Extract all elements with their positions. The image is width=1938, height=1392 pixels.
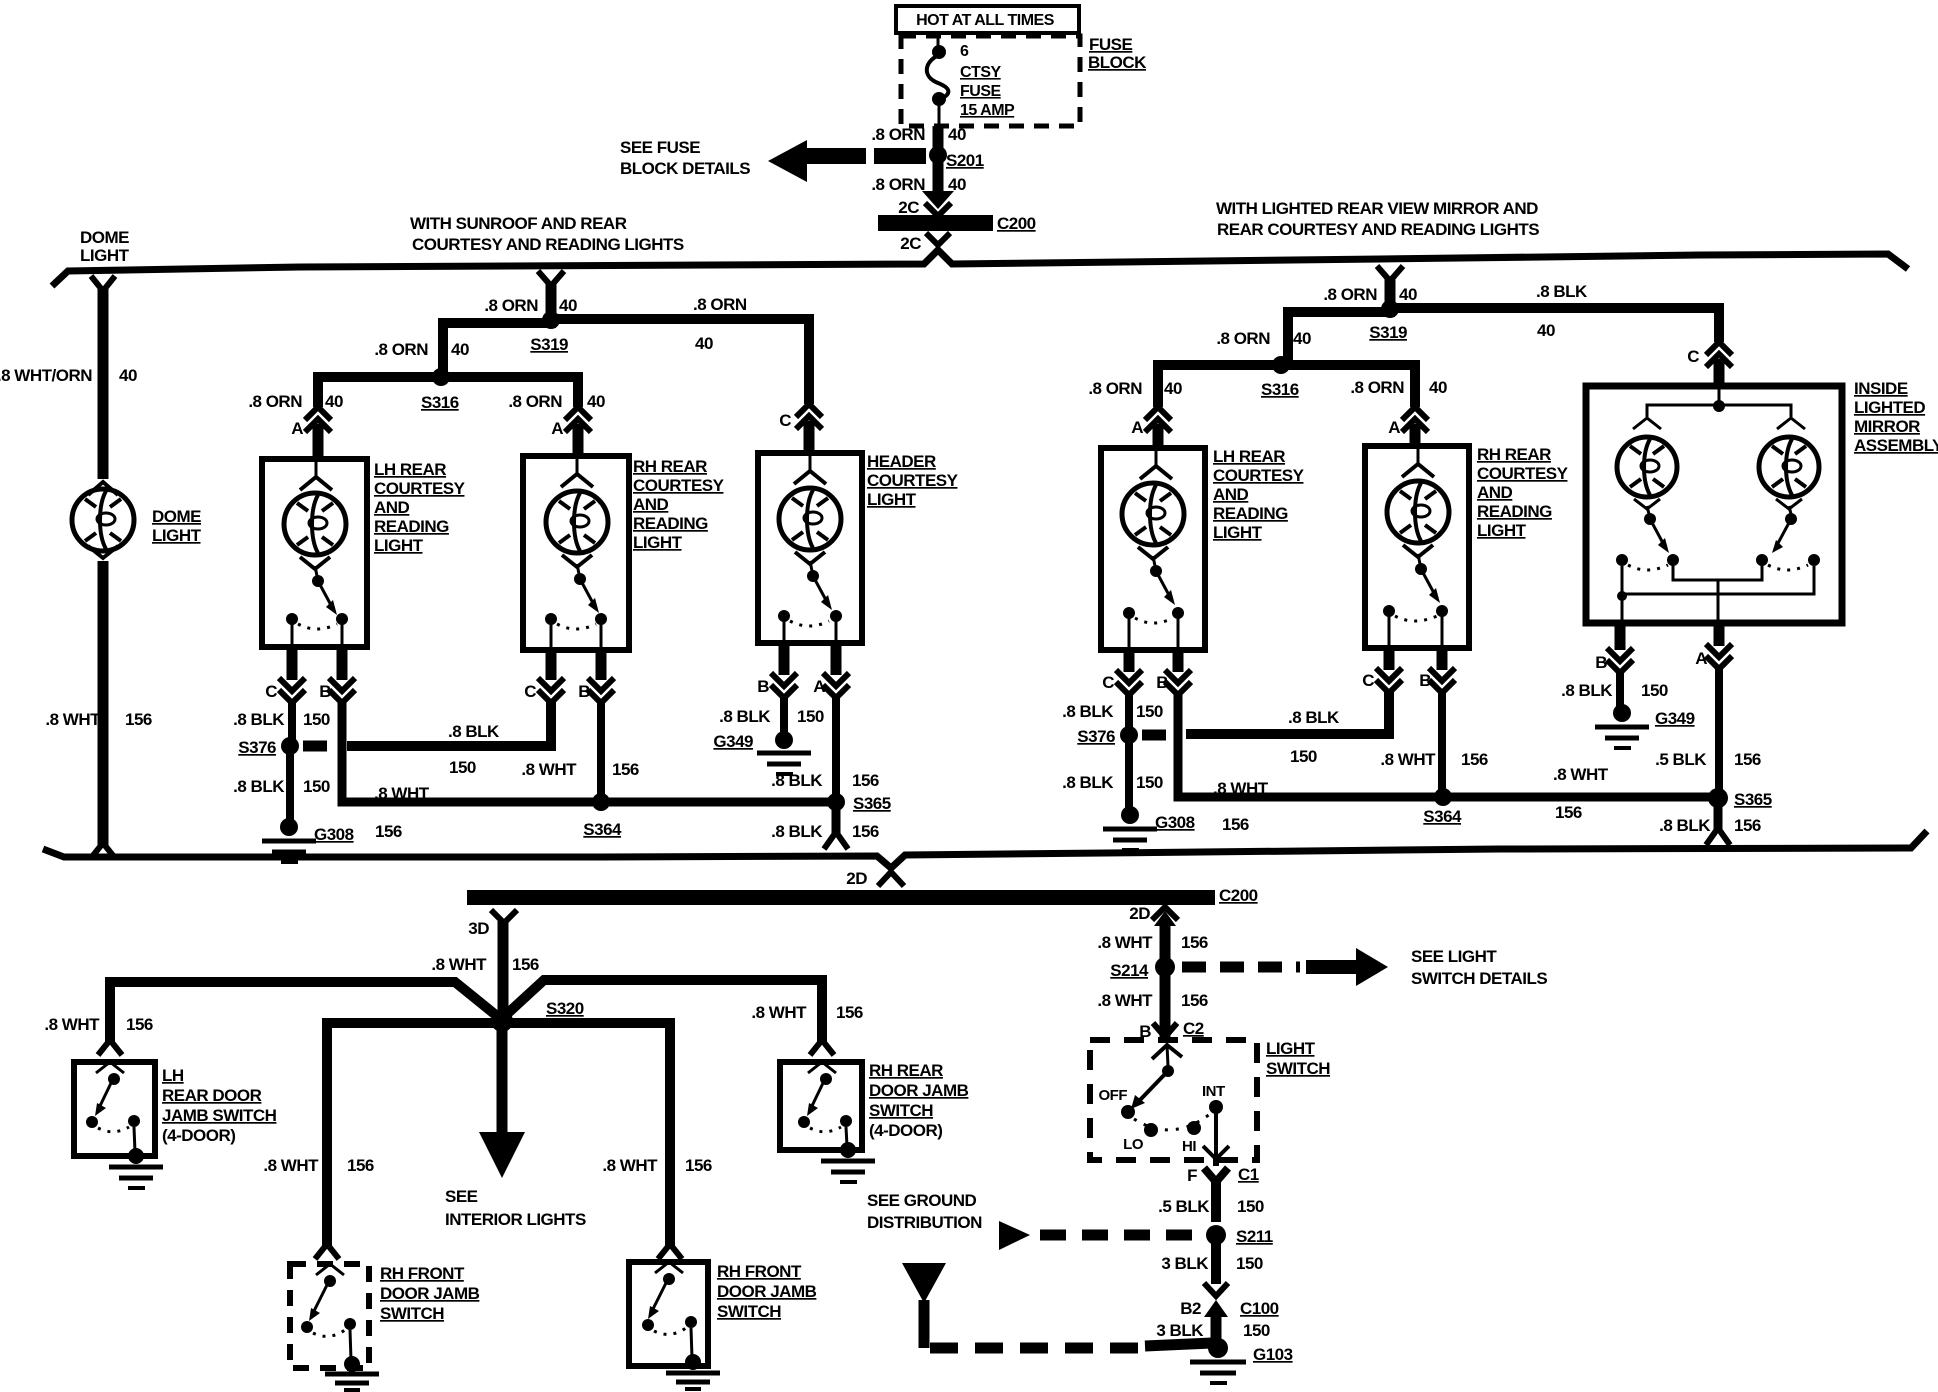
- wire: S365 to lower bus .8 BLK 156: [824, 808, 848, 849]
- lamp: DOME LIGHT bulb: [72, 482, 134, 558]
- svg-text:LIGHT: LIGHT: [1477, 521, 1527, 540]
- wire: .8 BLK 150 run S376 to RH lamp C: [347, 700, 551, 746]
- label: .8 BLK 40 (mirror feed): [1536, 282, 1588, 340]
- svg-text:40: 40: [325, 392, 343, 411]
- svg-text:.5 BLK: .5 BLK: [1158, 1197, 1210, 1216]
- svg-text:.5 BLK: .5 BLK: [1655, 750, 1707, 769]
- svg-text:.8 WHT: .8 WHT: [1097, 933, 1153, 952]
- connector arrow B out of LH rear lamp (right): [1156, 650, 1191, 695]
- svg-text:LH: LH: [162, 1066, 184, 1085]
- svg-text:156: 156: [1734, 750, 1761, 769]
- svg-text:150: 150: [1236, 1254, 1263, 1273]
- label: .8 WHT 156 (C200 to S214): [1097, 933, 1208, 952]
- wire: dashed run to G103: [924, 1300, 1212, 1348]
- svg-text:COURTESY: COURTESY: [633, 476, 725, 495]
- svg-text:.8 WHT: .8 WHT: [521, 760, 577, 779]
- svg-text:DOOR JAMB: DOOR JAMB: [380, 1284, 480, 1303]
- svg-text:.8 WHT: .8 WHT: [374, 784, 430, 803]
- wire: mirror B to G349 (right): [1616, 670, 1624, 708]
- label: RH FRONT DOOR JAMB SWITCH (left): [380, 1264, 480, 1323]
- label: OFF: [1099, 1087, 1128, 1104]
- svg-text:156: 156: [852, 771, 879, 790]
- svg-text:COURTESY: COURTESY: [1477, 464, 1569, 483]
- svg-text:A: A: [551, 419, 563, 438]
- wire: mirror A to S365 (right) .5 BLK 156: [1715, 668, 1723, 793]
- label: .8 BLK 156 (header A lead): [771, 771, 879, 790]
- svg-text:150: 150: [1136, 773, 1163, 792]
- svg-text:DISTRIBUTION: DISTRIBUTION: [867, 1213, 982, 1232]
- label: DOME LIGHT (top left): [80, 228, 130, 265]
- svg-text:.8 ORN: .8 ORN: [1350, 378, 1404, 397]
- connector fork: S319 left drop from upper bus: [538, 271, 564, 286]
- svg-text:COURTESY AND READING LIGHTS: COURTESY AND READING LIGHTS: [412, 235, 684, 254]
- splice S320: [491, 999, 584, 1032]
- splice S364 (left): [583, 793, 622, 839]
- svg-text:S211: S211: [1236, 1227, 1273, 1246]
- lamp: mirror right bulb: [1759, 437, 1819, 497]
- connector arrow A out of mirror: [1695, 623, 1732, 669]
- svg-text:JAMB SWITCH: JAMB SWITCH: [162, 1106, 277, 1125]
- svg-text:.8 BLK: .8 BLK: [1062, 702, 1114, 721]
- label: .8 WHT 156 (right B run): [1213, 779, 1269, 834]
- wire: RH lamp B to S364: [597, 700, 605, 800]
- svg-text:.8 ORN: .8 ORN: [693, 295, 747, 314]
- svg-text:40: 40: [587, 392, 605, 411]
- svg-text:.8 BLK: .8 BLK: [448, 722, 500, 741]
- label: .8 WHT 156 (mid RH front run): [602, 1156, 712, 1175]
- label: .8 BLK (S376 run): [448, 722, 500, 777]
- svg-text:RH FRONT: RH FRONT: [717, 1262, 802, 1281]
- wire: mirror outer contacts to B lead: [1617, 566, 1814, 620]
- wire: S214 to light switch B .8 WHT 156: [1160, 975, 1171, 1038]
- connector fork: dome light wire at upper bus: [91, 276, 115, 291]
- svg-text:.8 BLK: .8 BLK: [1659, 816, 1711, 835]
- svg-text:C2: C2: [1183, 1019, 1204, 1038]
- label: .8 ORN (S319 to header): [693, 295, 747, 353]
- svg-text:.8 WHT: .8 WHT: [1380, 750, 1436, 769]
- svg-text:SWITCH: SWITCH: [1266, 1059, 1330, 1078]
- svg-text:MIRROR: MIRROR: [1854, 417, 1920, 436]
- svg-text:G308: G308: [314, 825, 354, 844]
- label: 3 BLK 150: [1161, 1254, 1263, 1273]
- label: 3 BLK 150 (below C100): [1156, 1321, 1270, 1340]
- switch: mirror right bulb switch: [1756, 499, 1820, 570]
- svg-text:40: 40: [559, 296, 577, 315]
- svg-text:40: 40: [1399, 285, 1417, 304]
- svg-text:.8 BLK: .8 BLK: [771, 771, 823, 790]
- svg-text:LIGHT: LIGHT: [80, 246, 130, 265]
- svg-text:156: 156: [1734, 816, 1761, 835]
- node: HOT AT ALL TIMES box: [896, 6, 1079, 33]
- svg-text:G103: G103: [1253, 1345, 1293, 1364]
- wire: S376 right dash stub: [1142, 730, 1166, 741]
- svg-text:150: 150: [797, 707, 824, 726]
- connector 3D below C200: [468, 910, 517, 938]
- svg-text:S320: S320: [546, 999, 584, 1018]
- svg-text:3D: 3D: [468, 919, 489, 938]
- svg-text:B2: B2: [1180, 1299, 1201, 1318]
- ground G349 (left): [713, 731, 811, 774]
- svg-text:.8 BLK: .8 BLK: [771, 822, 823, 841]
- svg-text:156: 156: [836, 1003, 863, 1022]
- svg-text:.8 WHT: .8 WHT: [263, 1156, 319, 1175]
- svg-text:S364: S364: [1423, 807, 1462, 826]
- svg-text:HEADER: HEADER: [867, 452, 936, 471]
- svg-text:156: 156: [512, 955, 539, 974]
- arrow: ground distribution triangle: [902, 1263, 946, 1303]
- svg-text:40: 40: [1429, 378, 1447, 397]
- svg-text:(4-DOOR): (4-DOOR): [162, 1126, 235, 1145]
- lamp box: LH REAR COURTESY AND READING LIGHT (right section): [1101, 448, 1205, 650]
- label: INSIDE LIGHTED MIRROR ASSEMBLY: [1854, 379, 1938, 455]
- wire: S319 left branch to S316: [443, 323, 556, 372]
- svg-text:.8 WHT: .8 WHT: [431, 955, 487, 974]
- label: .8 WHT 156 (C200 to S320): [431, 955, 539, 974]
- svg-text:.8 ORN: .8 ORN: [871, 175, 925, 194]
- lamp box: HEADER COURTESY LIGHT: [758, 453, 862, 643]
- svg-text:.8 WHT/ORN: .8 WHT/ORN: [0, 366, 92, 385]
- label: SEE FUSE BLOCK DETAILS: [620, 138, 750, 178]
- svg-text:RH REAR: RH REAR: [1477, 445, 1551, 464]
- wire: S319 to mirror .8 BLK 40: [1395, 308, 1719, 342]
- wire: C200 3D to S320 .8 WHT 156: [498, 921, 509, 1018]
- svg-text:40: 40: [695, 334, 713, 353]
- svg-text:S364: S364: [583, 820, 622, 839]
- svg-text:40: 40: [1293, 329, 1311, 348]
- svg-text:.8 BLK: .8 BLK: [1561, 681, 1613, 700]
- connector B2 / C100: [1180, 1283, 1278, 1342]
- label: fuse 6 CTSY FUSE 15 AMP: [960, 43, 1015, 119]
- label: FUSE BLOCK: [1088, 35, 1147, 72]
- lamp box: RH REAR COURTESY AND READING LIGHT (left section): [523, 456, 629, 650]
- connector fork into RH rear door jamb switch: [810, 1040, 834, 1055]
- svg-text:156: 156: [125, 710, 152, 729]
- svg-text:.8 ORN: .8 ORN: [1216, 329, 1270, 348]
- svg-text:S201: S201: [946, 151, 984, 170]
- svg-text:INT: INT: [1202, 1083, 1225, 1100]
- svg-text:.8 ORN: .8 ORN: [508, 392, 562, 411]
- svg-text:INTERIOR LIGHTS: INTERIOR LIGHTS: [445, 1210, 586, 1229]
- connector arrow C out of LH rear lamp (right): [1102, 650, 1142, 695]
- svg-text:150: 150: [1237, 1197, 1264, 1216]
- label: .8 ORN 40 (S319-S316 branch): [374, 340, 469, 359]
- connector fork: S319 right drop from upper bus: [1377, 266, 1403, 281]
- splice S376 (right): [1077, 726, 1138, 746]
- svg-text:.8 BLK: .8 BLK: [1536, 282, 1588, 301]
- svg-text:.8 WHT: .8 WHT: [602, 1156, 658, 1175]
- label: SEE LIGHT SWITCH DETAILS: [1411, 947, 1547, 988]
- wire: stub left of S201: [874, 148, 926, 164]
- svg-text:S316: S316: [1261, 380, 1299, 399]
- splice S316 (left): [421, 368, 459, 412]
- label: .8 ORN 40 (right RH lamp feed): [1350, 378, 1447, 397]
- label: LO: [1123, 1136, 1144, 1153]
- label: .8 WHT 156 (dome ground side): [45, 710, 152, 729]
- ground: LH rear door jamb switch: [109, 1167, 163, 1188]
- label: LIGHT SWITCH: [1266, 1039, 1330, 1078]
- svg-text:C200: C200: [997, 214, 1036, 233]
- svg-text:150: 150: [303, 777, 330, 796]
- label: RH REAR COURTESY AND READING LIGHT (left section): [633, 457, 725, 552]
- wire: right LH lamp C to S376: [1125, 692, 1133, 729]
- svg-text:3 BLK: 3 BLK: [1161, 1254, 1209, 1273]
- connector arrow B out of mirror: [1595, 623, 1633, 673]
- svg-text:LIGHT: LIGHT: [633, 533, 683, 552]
- wire: bus to S319 (left): [546, 284, 557, 319]
- svg-text:156: 156: [1222, 815, 1249, 834]
- box: INSIDE LIGHTED MIRROR ASSEMBLY: [1586, 386, 1842, 623]
- svg-text:REAR DOOR: REAR DOOR: [162, 1086, 262, 1105]
- connector fork into RH front door jamb switch (dashed): [315, 1244, 339, 1259]
- wire: S320 to LH rear door jamb switch: [110, 982, 497, 1042]
- splice S211: [1206, 1225, 1273, 1246]
- splice S376 (left): [238, 737, 299, 757]
- wire: C1 to S211 .5 BLK 150: [1211, 1180, 1221, 1222]
- svg-text:LO: LO: [1123, 1136, 1144, 1153]
- connector C200 (bottom bar): [467, 886, 1258, 905]
- svg-text:.8 ORN: .8 ORN: [1088, 379, 1142, 398]
- svg-text:156: 156: [1555, 803, 1582, 822]
- svg-text:A: A: [1388, 418, 1400, 437]
- light switch dashed box: [1090, 1040, 1257, 1160]
- svg-text:156: 156: [1461, 750, 1488, 769]
- svg-text:C200: C200: [1219, 886, 1258, 905]
- svg-text:AND: AND: [633, 495, 669, 514]
- switch box: RH REAR DOOR JAMB SWITCH (4-DOOR): [780, 1062, 862, 1158]
- svg-text:S365: S365: [853, 794, 891, 813]
- svg-text:SEE: SEE: [445, 1187, 478, 1206]
- svg-text:A: A: [1131, 418, 1143, 437]
- svg-text:150: 150: [449, 758, 476, 777]
- svg-text:S316: S316: [421, 393, 459, 412]
- svg-text:150: 150: [1136, 702, 1163, 721]
- svg-text:.8 WHT: .8 WHT: [751, 1003, 807, 1022]
- svg-text:INSIDE: INSIDE: [1854, 379, 1908, 398]
- wire: S319 right branch to header lamp: [556, 319, 809, 404]
- wire: .8 BLK 150 run S376 to RH lamp C (right section): [1186, 692, 1389, 734]
- wire: S376 to G308 (.8 BLK 150): [286, 753, 294, 822]
- svg-text:S319: S319: [1369, 323, 1407, 342]
- svg-text:15 AMP: 15 AMP: [960, 102, 1015, 119]
- svg-text:C: C: [1102, 673, 1114, 692]
- arrow: SEE GROUND DISTRIBUTION (to S211): [999, 1221, 1205, 1250]
- wire: right RH lamp B to S364: [1438, 690, 1446, 797]
- label: .8 WHT 156 (right RH lamp B lead): [1380, 750, 1488, 769]
- svg-text:LIGHT: LIGHT: [867, 490, 917, 509]
- wire: S364 to S365 .8 WHT 156 (right): [1443, 793, 1718, 802]
- wire: LH lamp C to S376: [288, 700, 296, 740]
- label: .8 ORN 40 (below S201): [871, 175, 966, 194]
- ground G308 (right): [1103, 806, 1195, 850]
- wire: header B to G349: [780, 695, 788, 734]
- wire: dome light to lower bus .8 WHT 156: [98, 561, 109, 845]
- svg-text:ASSEMBLY: ASSEMBLY: [1854, 436, 1938, 455]
- svg-text:40: 40: [451, 340, 469, 359]
- svg-text:F: F: [1187, 1166, 1197, 1185]
- svg-text:156: 156: [1181, 991, 1208, 1010]
- svg-text:C1: C1: [1238, 1165, 1259, 1184]
- svg-text:.8 BLK: .8 BLK: [233, 710, 285, 729]
- wire: S316 horizontal (right section): [1158, 365, 1415, 407]
- svg-text:156: 156: [126, 1015, 153, 1034]
- svg-text:WITH LIGHTED REAR VIEW MIRROR: WITH LIGHTED REAR VIEW MIRROR AND: [1216, 199, 1538, 218]
- wire: fuse to S201 (.8 ORN 40): [933, 126, 944, 193]
- wire: S320 to RH front door jamb switch (dashed box): [327, 1023, 498, 1246]
- svg-text:READING: READING: [374, 517, 449, 536]
- label: .8 BLK 150 (right S376 to G308): [1062, 773, 1163, 792]
- fuse block dashed box: [901, 36, 1080, 126]
- svg-text:B: B: [757, 677, 769, 696]
- label: .8 ORN 40 (above S201): [871, 125, 966, 144]
- switch box: RH FRONT DOOR JAMB SWITCH (dashed): [290, 1264, 369, 1372]
- label: .8 WHT 156 (RH rear door run): [751, 1003, 863, 1022]
- arrow: SEE FUSE BLOCK DETAILS: [768, 140, 866, 182]
- label: .8 ORN 40 (S319 left drop): [484, 296, 577, 315]
- lamp box: LH REAR COURTESY AND READING LIGHT: [262, 459, 367, 647]
- svg-text:S365: S365: [1734, 790, 1772, 809]
- svg-text:.8 ORN: .8 ORN: [374, 340, 428, 359]
- svg-text:DOME: DOME: [80, 228, 129, 247]
- wire: S376 to G308 (right): [1125, 742, 1133, 810]
- connector 2C arrow into C200: [898, 191, 954, 217]
- svg-text:A: A: [291, 419, 303, 438]
- svg-text:156: 156: [685, 1156, 712, 1175]
- svg-text:156: 156: [1181, 933, 1208, 952]
- svg-text:AND: AND: [374, 498, 410, 517]
- svg-text:FUSE: FUSE: [1089, 35, 1133, 54]
- svg-text:HI: HI: [1182, 1138, 1196, 1155]
- svg-text:.8 WHT: .8 WHT: [45, 710, 101, 729]
- label: RH REAR COURTESY AND READING LIGHT (right section): [1477, 445, 1569, 540]
- label: DOME LIGHT (bulb): [152, 507, 202, 545]
- svg-text:DOME: DOME: [152, 507, 201, 526]
- label: .5 BLK 150: [1158, 1197, 1264, 1216]
- svg-text:.8 BLK: .8 BLK: [719, 707, 771, 726]
- svg-text:S376: S376: [238, 738, 276, 757]
- svg-text:RH FRONT: RH FRONT: [380, 1264, 465, 1283]
- connector arrow A out of header lamp: [813, 643, 849, 698]
- fuse F6 CTSY 15A symbol: [927, 31, 949, 126]
- connector fork: dome wire at lower bus: [91, 843, 115, 858]
- svg-text:2D: 2D: [1129, 904, 1150, 923]
- svg-text:REAR COURTESY AND READING LIGH: REAR COURTESY AND READING LIGHTS: [1217, 220, 1539, 239]
- label: .8 ORN 40 (LH lamp feed): [248, 392, 343, 411]
- svg-text:S376: S376: [1077, 727, 1115, 746]
- label: SEE GROUND DISTRIBUTION: [867, 1191, 982, 1232]
- svg-text:C: C: [524, 682, 536, 701]
- wire: LH lamp B run .8 WHT 156 to S364 and S365: [342, 700, 836, 802]
- svg-text:CTSY: CTSY: [960, 64, 1002, 81]
- svg-text:G349: G349: [713, 732, 753, 751]
- svg-text:C: C: [1687, 347, 1699, 366]
- ground G103: [1190, 1338, 1293, 1383]
- label: WITH SUNROOF AND REAR COURTESY AND READING LIGHTS: [410, 214, 684, 254]
- label: .8 WHT 156 (S364-S365 right): [1553, 765, 1609, 822]
- switch box: LH REAR DOOR JAMB SWITCH (4-DOOR): [74, 1062, 155, 1164]
- lamp: mirror left bulb: [1617, 437, 1677, 497]
- svg-text:40: 40: [948, 125, 966, 144]
- label: .8 WHT 156 (RH lamp B lead): [521, 760, 639, 779]
- connector arrow B out of RH rear lamp (left): [578, 650, 614, 703]
- label: .8 WHT 156 (B run labels): [374, 784, 430, 841]
- wire: bus to S319 (right): [1385, 279, 1396, 308]
- svg-text:156: 156: [852, 822, 879, 841]
- svg-text:BLOCK DETAILS: BLOCK DETAILS: [620, 159, 750, 178]
- connector arrow B out of RH rear lamp (right): [1419, 648, 1455, 693]
- svg-text:150: 150: [1243, 1321, 1270, 1340]
- svg-text:DOOR JAMB: DOOR JAMB: [869, 1081, 969, 1100]
- label: .8 BLK 156 (S365 to bus): [771, 822, 879, 841]
- svg-text:SEE FUSE: SEE FUSE: [620, 138, 700, 157]
- svg-text:G308: G308: [1155, 813, 1195, 832]
- label: HEADER COURTESY LIGHT: [867, 452, 959, 509]
- svg-text:150: 150: [1641, 681, 1668, 700]
- label: .8 ORN 40 (S319 right drop): [1323, 285, 1417, 304]
- label: RH FRONT DOOR JAMB SWITCH (middle): [717, 1262, 817, 1321]
- svg-text:2D: 2D: [846, 869, 867, 888]
- svg-text:LIGHT: LIGHT: [374, 536, 424, 555]
- svg-text:.8 WHT: .8 WHT: [1097, 991, 1153, 1010]
- svg-text:(4-DOOR): (4-DOOR): [869, 1121, 942, 1140]
- ground: RH front door jamb switch (dashed): [325, 1374, 379, 1390]
- svg-text:RH REAR: RH REAR: [869, 1061, 943, 1080]
- label: .5 BLK 156 (mirror A lead): [1655, 750, 1761, 769]
- svg-text:6: 6: [960, 43, 969, 60]
- connector B / C2 into light switch: [1139, 1019, 1204, 1041]
- switch box: RH FRONT DOOR JAMB SWITCH (solid): [629, 1262, 708, 1370]
- connector arrow B out of LH rear lamp: [319, 647, 355, 703]
- label: .8 WHT 156 (S214 to switch): [1097, 991, 1208, 1010]
- wire: lower bus (ground/white return run): [43, 831, 1927, 868]
- label: .8 ORN 40 (RH lamp feed): [508, 392, 605, 411]
- connector pass-through 2D on lower bus: [846, 869, 904, 888]
- svg-text:C100: C100: [1240, 1299, 1279, 1318]
- wire: S316 horizontal (left section): [318, 377, 583, 407]
- svg-text:SEE LIGHT: SEE LIGHT: [1411, 947, 1497, 966]
- label: .8 BLK 150 (mirror B lead): [1561, 681, 1668, 700]
- svg-text:S319: S319: [530, 335, 568, 354]
- switch: mirror left bulb switch: [1616, 499, 1679, 570]
- svg-text:.8 BLK: .8 BLK: [1288, 708, 1340, 727]
- connector arrow C into header courtesy lamp: [779, 404, 822, 453]
- label: .8 WHT 156 (left RH front run): [263, 1156, 374, 1175]
- svg-text:COURTESY: COURTESY: [867, 471, 959, 490]
- splice S319 (left): [530, 311, 568, 354]
- svg-text:156: 156: [612, 760, 639, 779]
- connector arrow A into LH rear lamp (right): [1131, 407, 1171, 448]
- svg-text:AND: AND: [1477, 483, 1513, 502]
- svg-text:AND: AND: [1213, 485, 1249, 504]
- svg-text:LIGHT: LIGHT: [1213, 523, 1263, 542]
- label: LH REAR COURTESY AND READING LIGHT: [374, 460, 466, 555]
- connector arrow A into RH rear lamp (right): [1388, 407, 1428, 446]
- svg-text:S214: S214: [1110, 961, 1149, 980]
- splice S364 (right): [1423, 788, 1462, 826]
- svg-text:.8 ORN: .8 ORN: [484, 296, 538, 315]
- svg-text:COURTESY: COURTESY: [1213, 466, 1305, 485]
- svg-text:SWITCH DETAILS: SWITCH DETAILS: [1411, 969, 1547, 988]
- lamp box: RH REAR COURTESY AND READING LIGHT (right section): [1365, 446, 1469, 648]
- wire: INT contact to F output: [1203, 1113, 1229, 1166]
- wire: S376 dash stub: [303, 741, 327, 752]
- svg-text:2C: 2C: [898, 198, 919, 217]
- connector arrow C into mirror assembly: [1687, 342, 1732, 386]
- wire: right LH lamp B run to S364 (right): [1178, 692, 1443, 797]
- svg-text:BLOCK: BLOCK: [1088, 53, 1147, 72]
- svg-text:COURTESY: COURTESY: [374, 479, 466, 498]
- splice S316 (right): [1261, 356, 1299, 399]
- svg-text:C: C: [265, 682, 277, 701]
